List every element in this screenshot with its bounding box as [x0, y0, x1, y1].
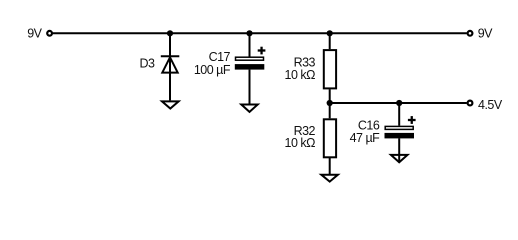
- svg-text:9V: 9V: [478, 27, 493, 41]
- svg-text:10 kΩ: 10 kΩ: [285, 136, 316, 150]
- svg-text:4.5V: 4.5V: [478, 98, 503, 112]
- svg-text:100 µF: 100 µF: [194, 63, 231, 77]
- svg-text:9V: 9V: [27, 26, 42, 40]
- svg-text:47 µF: 47 µF: [350, 131, 381, 145]
- svg-text:10 kΩ: 10 kΩ: [285, 68, 316, 82]
- svg-text:D3: D3: [140, 56, 156, 70]
